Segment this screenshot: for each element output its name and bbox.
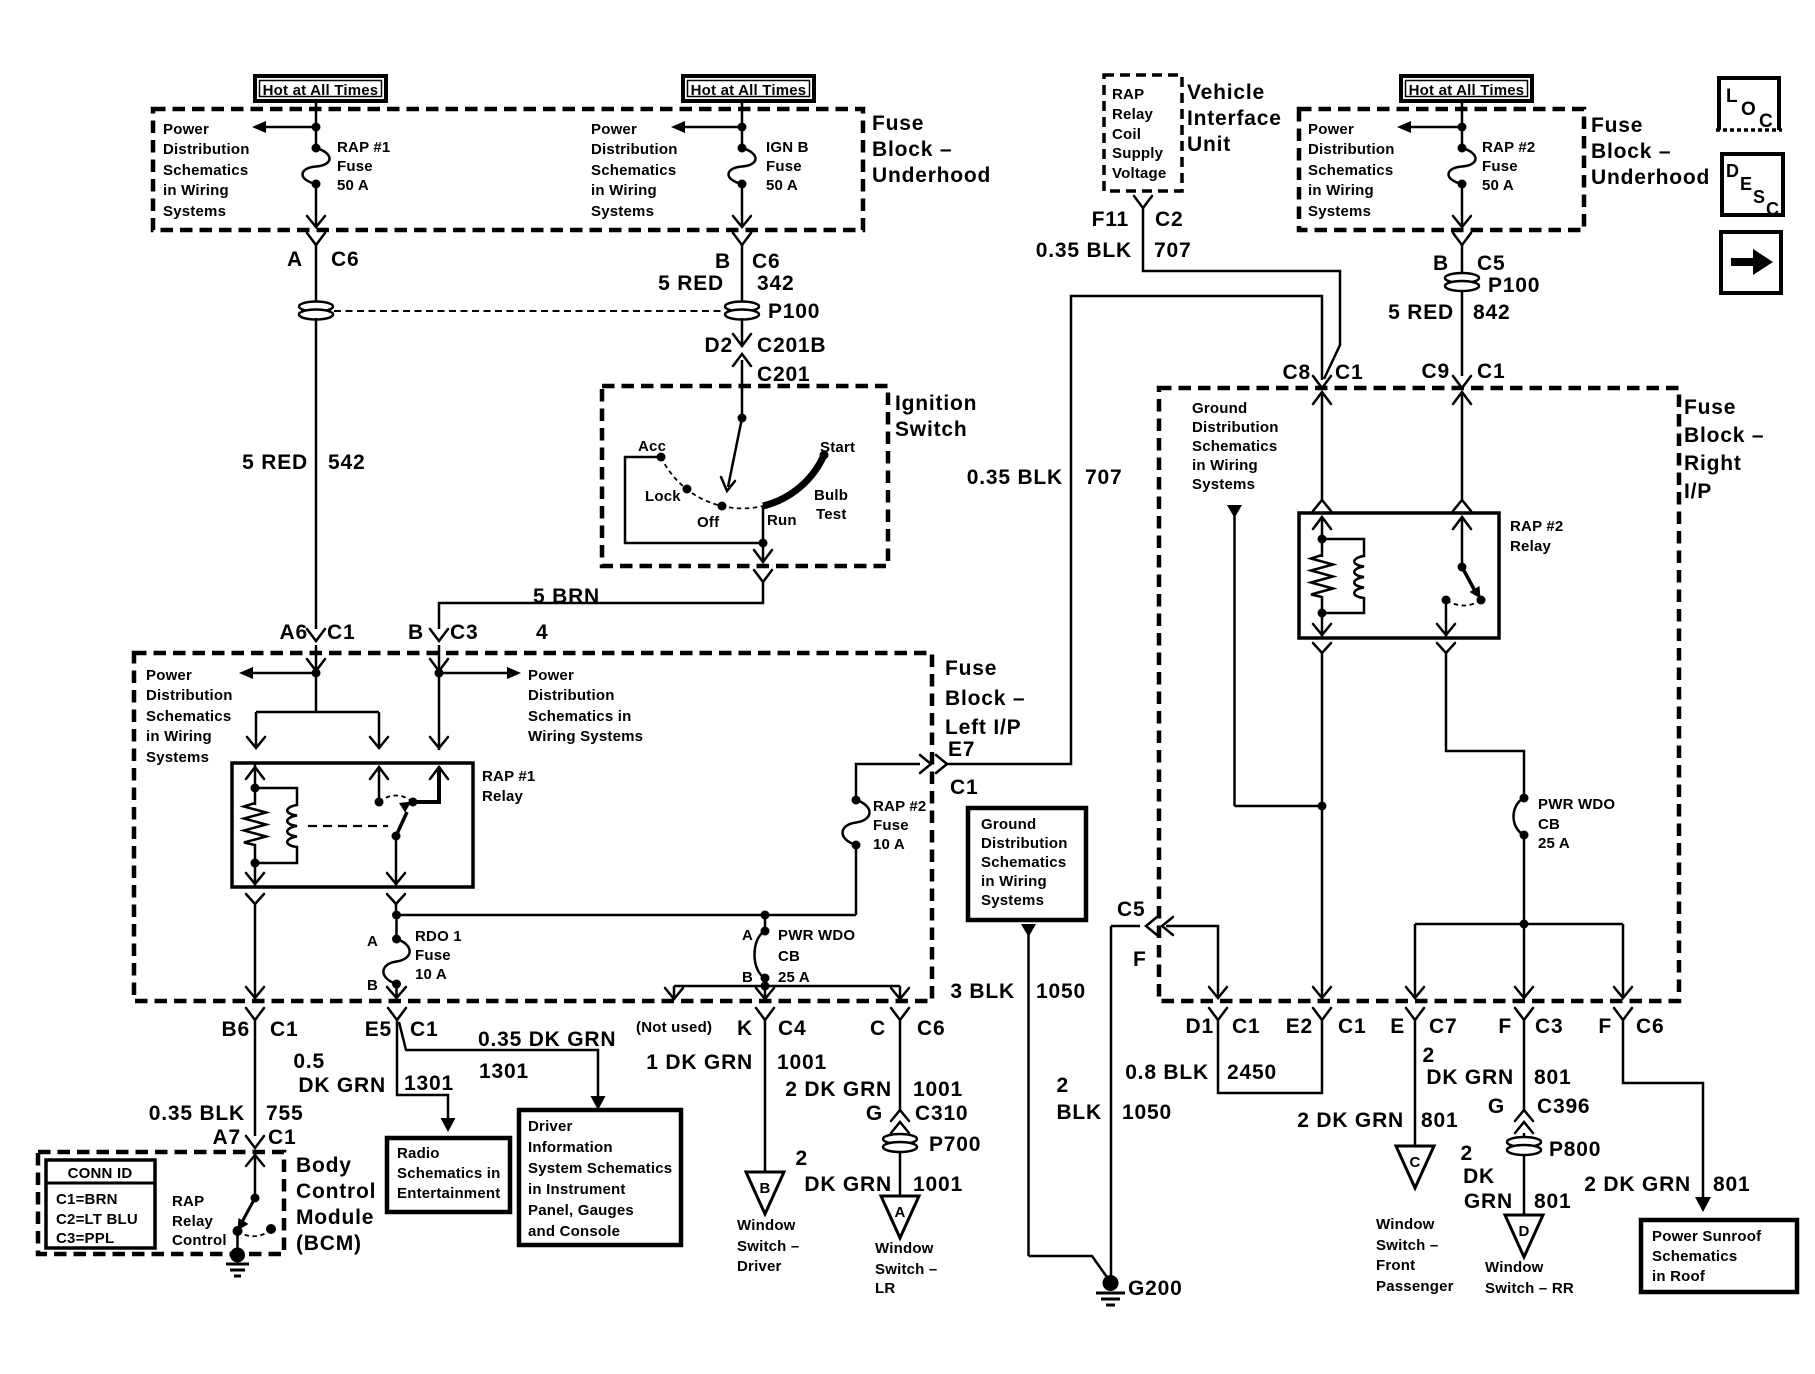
arrow C leg [891, 986, 909, 999]
relay switch fixed contact [375, 767, 384, 807]
svg-text:in Wiring: in Wiring [163, 182, 229, 199]
label Window Switch - RR [1485, 1259, 1574, 1297]
svg-text:PWR WDO: PWR WDO [1538, 796, 1615, 813]
relay2 bottom chevrons [1313, 643, 1331, 653]
svg-text:P800: P800 [1549, 1138, 1601, 1161]
ground at BCM [226, 1231, 249, 1276]
triangle connector A (window switch LR) [881, 1196, 919, 1238]
svg-text:Switch –: Switch – [737, 1238, 799, 1255]
svg-text:25 A: 25 A [1538, 835, 1570, 852]
Power Distribution note col2 [591, 121, 678, 220]
svg-text:C: C [1409, 1154, 1420, 1171]
switch contact and throw arc [233, 1224, 277, 1236]
svg-text:in Wiring: in Wiring [981, 873, 1047, 890]
circuit breaker PWR WDO CB 25A (left) [742, 915, 855, 986]
svg-text:Driver: Driver [528, 1118, 573, 1135]
connector E2 / C1 [1286, 1008, 1367, 1038]
node junction col1 [312, 123, 321, 132]
svg-text:Fuse: Fuse [873, 817, 909, 834]
svg-text:5 BRN: 5 BRN [533, 585, 600, 608]
svg-text:Panel, Gauges: Panel, Gauges [528, 1202, 634, 1219]
triangle connector B (window switch driver) [746, 1172, 784, 1214]
relay switch output contact [409, 767, 440, 807]
wire B6 leg [246, 904, 264, 998]
svg-text:B: B [367, 977, 378, 994]
svg-text:G: G [866, 1102, 883, 1125]
fuse RAP #2 10A (in left IP) [843, 796, 927, 916]
svg-text:Ignition: Ignition [895, 392, 977, 415]
svg-text:C1: C1 [1335, 361, 1363, 384]
svg-text:0.35 BLK: 0.35 BLK [1036, 239, 1132, 262]
wire 5 BRN 4 to B/C3 [439, 582, 763, 644]
DESC reference box [1722, 154, 1783, 219]
wire 0.8 BLK 2450 U-link D1-E2 [1125, 1020, 1322, 1093]
svg-text:Wiring Systems: Wiring Systems [528, 728, 643, 745]
relay2 pin arrows top inside [1313, 517, 1331, 529]
contact Acc [657, 453, 666, 462]
svg-text:707: 707 [1154, 239, 1191, 262]
connector A6 / C1 [280, 621, 356, 644]
relay feed tee [256, 711, 379, 714]
svg-text:C: C [870, 1017, 886, 1040]
relay switch throw arc dashed [379, 796, 413, 803]
svg-text:RAP #1: RAP #1 [482, 768, 535, 785]
C9 wire into box [1453, 392, 1471, 511]
wire RDO1 to border arrow [387, 984, 406, 998]
LOC reference box [1716, 78, 1782, 132]
label Bulb Test [814, 487, 848, 523]
svg-text:842: 842 [1473, 301, 1510, 324]
svg-text:C4: C4 [778, 1017, 806, 1040]
distribution bar below CB right [1415, 835, 1623, 929]
label Fuse Block - Right I/P [1684, 396, 1764, 503]
svg-text:Block –: Block – [945, 687, 1025, 710]
ignition actuator arrow [721, 418, 742, 491]
svg-text:Ground: Ground [1192, 400, 1247, 417]
svg-text:Switch –: Switch – [875, 1261, 937, 1278]
relay linkage dashed [308, 825, 388, 827]
svg-text:Underhood: Underhood [1591, 166, 1710, 189]
fuse RAP #1 50A [303, 139, 391, 194]
relay coil inductor parallel branch [255, 788, 297, 863]
svg-text:Power: Power [1308, 121, 1354, 138]
svg-text:in Wiring: in Wiring [146, 728, 212, 745]
svg-text:Block –: Block – [872, 138, 952, 161]
svg-text:Module: Module [296, 1206, 374, 1229]
connector below ignition box [754, 570, 772, 582]
svg-text:1050: 1050 [1122, 1101, 1172, 1124]
svg-text:Distribution: Distribution [1192, 419, 1279, 436]
svg-text:DK GRN: DK GRN [804, 1173, 892, 1196]
svg-text:C5: C5 [1117, 898, 1145, 921]
svg-text:Left I/P: Left I/P [945, 716, 1021, 739]
svg-text:Schematics in: Schematics in [397, 1165, 500, 1182]
label Body Control Module (BCM) [296, 1154, 376, 1255]
svg-text:2: 2 [1057, 1074, 1069, 1097]
connector F / C6 [1598, 1008, 1664, 1038]
node junction col3 [1458, 123, 1467, 132]
connector B / C5 [1433, 233, 1505, 275]
Fuse Block - Right I/P dashed box [1159, 388, 1679, 1001]
label RAP #1 Relay [482, 768, 535, 805]
svg-text:4: 4 [536, 621, 548, 644]
Hot at All Times label box 3 [1401, 76, 1532, 101]
svg-text:3 BLK: 3 BLK [950, 980, 1015, 1003]
svg-text:Fuse: Fuse [337, 158, 373, 175]
svg-text:Distribution: Distribution [528, 687, 615, 704]
svg-text:1050: 1050 [1036, 980, 1086, 1003]
svg-text:C1: C1 [327, 621, 355, 644]
svg-text:in Instrument: in Instrument [528, 1181, 626, 1198]
Ignition Switch dashed box [602, 386, 888, 566]
Hot at All Times label box 1 [255, 76, 386, 101]
svg-text:G: G [1488, 1095, 1505, 1118]
svg-text:RAP #2: RAP #2 [1510, 518, 1563, 535]
svg-text:2: 2 [1461, 1142, 1473, 1165]
svg-text:Schematics: Schematics [163, 162, 248, 179]
svg-text:Systems: Systems [163, 203, 226, 220]
relay2 switch contacts and arc [1442, 596, 1486, 606]
svg-text:Schematics: Schematics [1652, 1248, 1737, 1265]
wire E7 exit [856, 296, 1322, 800]
svg-text:2 DK GRN: 2 DK GRN [1297, 1109, 1404, 1132]
svg-text:A6: A6 [280, 621, 308, 644]
svg-text:A7: A7 [213, 1126, 241, 1149]
wire E5 to driver info: 0.35 DK GRN 1301 [399, 1022, 616, 1110]
svg-text:5 RED: 5 RED [242, 451, 308, 474]
svg-text:Schematics: Schematics [591, 162, 676, 179]
B/C3 wire into box [430, 645, 448, 750]
svg-text:Underhood: Underhood [872, 164, 991, 187]
connector K / C4 [737, 1008, 806, 1040]
connector E5 / C1 [365, 1008, 439, 1041]
ignition switch rotor node [738, 414, 747, 423]
svg-text:0.35 DK GRN: 0.35 DK GRN [478, 1028, 616, 1051]
Power Sunroof box [1641, 1220, 1797, 1292]
svg-text:RAP: RAP [172, 1193, 204, 1210]
svg-text:2 DK GRN: 2 DK GRN [1584, 1173, 1691, 1196]
wire F/C3: 2 DK GRN 801 upper [1423, 1020, 1572, 1110]
relay2 coil branch [1311, 517, 1333, 636]
svg-text:Driver: Driver [737, 1258, 782, 1275]
svg-text:0.35 BLK: 0.35 BLK [967, 466, 1063, 489]
wire to LR triangle: 2 DK GRN 1001 [796, 1147, 963, 1196]
svg-text:P700: P700 [929, 1133, 981, 1156]
svg-text:C6: C6 [1636, 1015, 1664, 1038]
svg-text:D: D [1726, 161, 1739, 181]
svg-text:Hot at All Times: Hot at All Times [1409, 82, 1525, 99]
svg-text:C: C [1766, 199, 1779, 219]
svg-text:GRN: GRN [1464, 1190, 1513, 1213]
svg-text:Fuse: Fuse [1482, 158, 1518, 175]
fuse IGN B 50A [729, 139, 809, 194]
svg-text:B: B [742, 969, 753, 986]
svg-text:1301: 1301 [479, 1060, 529, 1083]
arrow K leg [756, 986, 774, 999]
svg-text:Schematics: Schematics [1308, 162, 1393, 179]
svg-text:C1: C1 [1232, 1015, 1260, 1038]
chevron at B pin top [430, 737, 448, 748]
svg-text:Control: Control [172, 1232, 227, 1249]
C8 wire into box [1313, 392, 1331, 511]
connector F / C3 [1498, 1008, 1563, 1038]
Driver Information box [519, 1110, 681, 1245]
svg-text:C1: C1 [1338, 1015, 1366, 1038]
svg-text:Systems: Systems [591, 203, 654, 220]
svg-text:C1: C1 [410, 1018, 438, 1041]
svg-text:Distribution: Distribution [981, 835, 1068, 852]
svg-text:Fuse: Fuse [415, 947, 451, 964]
svg-text:C9: C9 [1422, 360, 1450, 383]
svg-text:D1: D1 [1186, 1015, 1214, 1038]
Radio Schematics box [387, 1138, 510, 1212]
relay switch arm [392, 802, 412, 841]
svg-text:C310: C310 [915, 1102, 968, 1125]
connector G / C310 [866, 1102, 969, 1133]
fuse RAP #2 50A [1449, 139, 1536, 194]
Fuse Block - Left I/P dashed box [134, 653, 932, 1001]
svg-text:Lock: Lock [645, 488, 681, 505]
arrow F(C3) leg [1515, 924, 1533, 998]
wire K to window switch driver: 1 DK GRN 1001 [646, 1020, 827, 1172]
svg-text:DK GRN: DK GRN [1426, 1066, 1514, 1089]
Hot at All Times label box 2 [683, 76, 814, 101]
in-line connector P100 col2 [725, 300, 820, 323]
wire from Hot1 down [315, 101, 318, 148]
label Vehicle Interface Unit [1187, 81, 1282, 156]
connector F11 / C2 [1092, 196, 1184, 231]
svg-text:Systems: Systems [1192, 476, 1255, 493]
svg-text:E: E [1390, 1015, 1405, 1038]
svg-text:Distribution: Distribution [1308, 141, 1395, 158]
svg-text:C2=LT BLU: C2=LT BLU [56, 1211, 138, 1228]
wire arrow left col3 [1397, 121, 1462, 133]
svg-text:C201B: C201B [757, 334, 826, 357]
svg-text:801: 801 [1534, 1190, 1571, 1213]
svg-text:50 A: 50 A [337, 177, 369, 194]
svg-text:Distribution: Distribution [146, 687, 233, 704]
Power Distribution note col3 [1308, 121, 1395, 220]
in-line connector C5 / F [1111, 898, 1227, 998]
svg-text:Unit: Unit [1187, 133, 1231, 156]
svg-text:in Roof: in Roof [1652, 1268, 1706, 1285]
svg-text:Start: Start [820, 439, 855, 456]
svg-text:RAP #2: RAP #2 [1482, 139, 1535, 156]
svg-text:Systems: Systems [146, 749, 209, 766]
svg-text:542: 542 [328, 451, 365, 474]
connector A7 / C1 [213, 1126, 297, 1149]
connector G / C396 [1488, 1095, 1591, 1133]
svg-text:1 DK GRN: 1 DK GRN [646, 1051, 753, 1074]
BCM entry arrow up [246, 1155, 264, 1203]
label Fuse Block - Underhood (right) [1591, 114, 1710, 189]
node junction col2 [738, 123, 747, 132]
arrow reference box [1721, 232, 1781, 293]
svg-text:Window: Window [875, 1240, 934, 1257]
in-line connector P100 (col3) [1445, 245, 1540, 297]
svg-text:Fuse: Fuse [872, 112, 924, 135]
svg-text:1301: 1301 [404, 1072, 454, 1095]
svg-text:E5: E5 [365, 1018, 392, 1041]
label Fuse Block - Underhood (left) [872, 112, 991, 187]
svg-text:E7: E7 [948, 738, 975, 761]
svg-text:0.35 BLK: 0.35 BLK [149, 1102, 245, 1125]
triangle connector D (window switch RR) [1505, 1215, 1543, 1257]
ignition position arc (dashed) [661, 457, 763, 508]
svg-text:E2: E2 [1286, 1015, 1313, 1038]
svg-text:C6: C6 [331, 248, 359, 271]
svg-text:G200: G200 [1128, 1277, 1183, 1300]
svg-text:C396: C396 [1537, 1095, 1590, 1118]
wire fuse to border arrow col3 [1453, 184, 1471, 227]
svg-text:RDO 1: RDO 1 [415, 928, 462, 945]
svg-text:Window: Window [1485, 1259, 1544, 1276]
svg-text:Schematics: Schematics [146, 708, 231, 725]
svg-text:Schematics: Schematics [1192, 438, 1277, 455]
connector A / C6 [287, 233, 359, 271]
svg-text:B: B [1433, 252, 1449, 275]
svg-text:Passenger: Passenger [1376, 1278, 1454, 1295]
svg-text:Power: Power [163, 121, 209, 138]
svg-text:Run: Run [767, 512, 797, 529]
svg-text:5 RED: 5 RED [658, 272, 724, 295]
svg-text:in Wiring: in Wiring [1192, 457, 1258, 474]
svg-text:in Wiring: in Wiring [1308, 182, 1374, 199]
connector C9 / C1 [1422, 360, 1506, 388]
ground distribution drop wire [1227, 505, 1327, 811]
svg-text:2 DK GRN: 2 DK GRN [785, 1078, 892, 1101]
svg-text:0.5: 0.5 [293, 1050, 325, 1073]
A6 wire into box [307, 645, 325, 712]
svg-text:C1=BRN: C1=BRN [56, 1191, 118, 1208]
arrow at ignition box bottom [754, 550, 772, 562]
svg-text:Systems: Systems [981, 892, 1044, 909]
wire arrow left col2 [671, 121, 742, 133]
connector D2 / C201B [705, 318, 827, 357]
connector D1 / C1 [1186, 1008, 1261, 1038]
svg-text:Test: Test [816, 506, 847, 523]
svg-text:C2: C2 [1155, 208, 1183, 231]
arrow to Power Distribution left (inside box) [239, 667, 316, 679]
wire C to LR: 2 DK GRN 1001 [785, 1020, 963, 1110]
RAP #1 Relay box [232, 763, 473, 887]
svg-text:Distribution: Distribution [163, 141, 250, 158]
wire tee right leg [370, 712, 388, 748]
svg-text:P100: P100 [1488, 274, 1540, 297]
arrow F(C6) leg [1614, 924, 1632, 998]
svg-text:Ground: Ground [981, 816, 1036, 833]
svg-text:A: A [367, 933, 378, 950]
Body Control Module dashed box [38, 1152, 284, 1254]
RAP #2 Relay box [1299, 513, 1499, 638]
connector B / C3 [408, 621, 478, 644]
label Window Switch - Front Passenger [1376, 1216, 1454, 1295]
svg-text:C201: C201 [757, 363, 810, 386]
svg-text:2: 2 [796, 1147, 808, 1170]
relay coil branch [244, 763, 266, 885]
svg-text:Voltage: Voltage [1112, 165, 1166, 182]
svg-text:Relay: Relay [172, 1213, 213, 1230]
svg-text:Fuse: Fuse [766, 158, 802, 175]
contact Lock [683, 485, 692, 494]
svg-text:A: A [894, 1204, 905, 1221]
Ground Distribution box (middle) [968, 808, 1086, 920]
svg-text:L: L [1726, 86, 1738, 107]
svg-text:C6: C6 [917, 1017, 945, 1040]
svg-text:RAP #2: RAP #2 [873, 798, 926, 815]
connector E / C7 [1390, 1008, 1457, 1038]
svg-text:CONN ID: CONN ID [68, 1165, 133, 1182]
svg-text:C1: C1 [1477, 360, 1505, 383]
svg-text:(BCM): (BCM) [296, 1232, 362, 1255]
svg-text:Interface: Interface [1187, 107, 1282, 130]
svg-text:B6: B6 [222, 1018, 250, 1041]
wire 5 RED 842 [1388, 290, 1510, 376]
label RAP Relay Control [172, 1193, 227, 1249]
svg-text:Window: Window [1376, 1216, 1435, 1233]
svg-text:Coil: Coil [1112, 126, 1141, 143]
svg-text:Hot at All Times: Hot at All Times [691, 82, 807, 99]
svg-text:1001: 1001 [913, 1173, 963, 1196]
wire relay out to fuse row [392, 904, 856, 920]
svg-text:S: S [1753, 187, 1765, 207]
svg-text:I/P: I/P [1684, 480, 1712, 503]
svg-text:A: A [287, 248, 303, 271]
svg-text:5 RED: 5 RED [1388, 301, 1454, 324]
svg-text:IGN B: IGN B [766, 139, 809, 156]
arrow to Power Distribution right (inside box) [439, 667, 521, 679]
svg-text:Body: Body [296, 1154, 352, 1177]
wire F/C6 to sunroof: 2 DK GRN 801 [1584, 1020, 1750, 1212]
relay2 switch pivot [1458, 517, 1481, 599]
Power Distribution note (left inside) [146, 667, 233, 766]
fuse RDO 1 10A [367, 915, 462, 994]
svg-text:C3: C3 [450, 621, 478, 644]
svg-text:PWR WDO: PWR WDO [778, 927, 855, 944]
contact Off [718, 502, 727, 511]
svg-text:50 A: 50 A [766, 177, 798, 194]
svg-text:P100: P100 [768, 300, 820, 323]
svg-text:K: K [737, 1017, 753, 1040]
wire 5 RED 542 [242, 318, 365, 629]
svg-text:BLK: BLK [1056, 1101, 1102, 1124]
svg-text:C: C [1759, 111, 1773, 132]
relay bottom pin chevrons [246, 894, 264, 904]
svg-text:801: 801 [1534, 1066, 1571, 1089]
svg-text:F: F [1598, 1015, 1612, 1038]
in-line connector P800 [1507, 1133, 1601, 1161]
svg-text:Relay: Relay [1510, 538, 1551, 555]
svg-text:CB: CB [778, 948, 800, 965]
svg-text:F11: F11 [1092, 208, 1129, 231]
svg-text:50 A: 50 A [1482, 177, 1514, 194]
label Window Switch - LR [875, 1240, 937, 1297]
wire Acc loop [625, 457, 763, 543]
svg-text:Off: Off [697, 514, 720, 531]
wire 5 RED 342 [658, 245, 794, 303]
Vehicle Interface Unit dashed box [1104, 75, 1182, 191]
svg-text:Switch: Switch [895, 418, 967, 441]
svg-text:B: B [715, 250, 731, 273]
Ground Distribution note (right box) [1192, 400, 1279, 493]
node run junction [759, 539, 768, 548]
triangle connector C (front passenger) [1396, 1146, 1434, 1188]
svg-text:C1: C1 [950, 776, 978, 799]
wire fuse to border arrow col2 [733, 184, 751, 227]
svg-text:Relay: Relay [1112, 106, 1153, 123]
distribution bar below CB [674, 978, 900, 991]
wire fuse to border with arrow [307, 184, 325, 227]
